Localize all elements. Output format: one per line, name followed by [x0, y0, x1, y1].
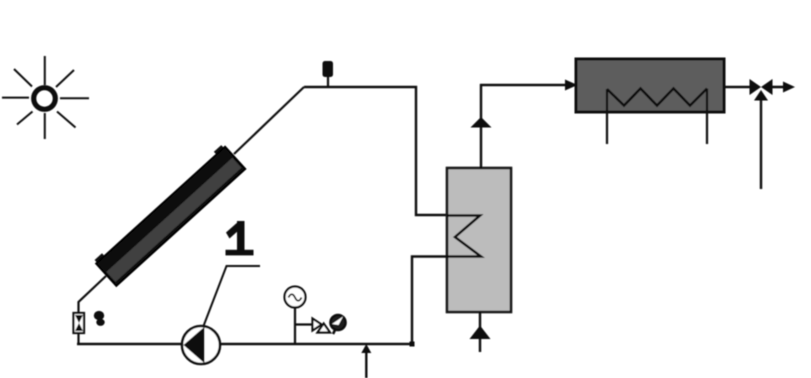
wire flow meter to bottom line	[77, 333, 79, 345]
exchanger coil	[607, 89, 707, 106]
bottom horizontal wire	[77, 343, 413, 345]
wire collector top to flow line	[234, 87, 304, 154]
label 1 leader line	[204, 266, 261, 326]
sun	[2, 56, 89, 139]
outlet pipe	[724, 86, 750, 89]
temperature sensor	[323, 61, 334, 88]
tank top pipe	[480, 84, 482, 168]
label 1	[226, 221, 254, 255]
wire top horizontal to corner	[304, 87, 447, 215]
wire collector bottom to flow meter	[79, 276, 107, 314]
pressure gauge	[285, 287, 306, 308]
storage tank	[447, 168, 511, 312]
pump	[182, 326, 220, 364]
check valve bottom	[470, 326, 491, 340]
valve triangles	[313, 319, 331, 333]
check valve top	[471, 117, 492, 128]
feed arrow up	[361, 344, 371, 378]
heat exchanger	[576, 59, 724, 112]
tank heat exchanger coil	[447, 216, 481, 257]
solar collector	[94, 144, 246, 286]
junction	[410, 342, 415, 347]
gauge stem	[294, 308, 296, 346]
wire coil return to bottom line	[412, 257, 447, 345]
outlet arrow	[772, 82, 795, 93]
control valve	[750, 79, 773, 95]
pipe to heat exchanger with arrow	[480, 80, 578, 91]
actuator circle	[330, 315, 345, 334]
valve inlet arrow	[754, 90, 768, 189]
exchanger coil legs	[607, 89, 707, 145]
branch wire to valve	[295, 323, 313, 325]
flow meter	[74, 313, 85, 333]
tank bottom pipe	[479, 312, 481, 352]
sensor blob	[94, 311, 105, 326]
